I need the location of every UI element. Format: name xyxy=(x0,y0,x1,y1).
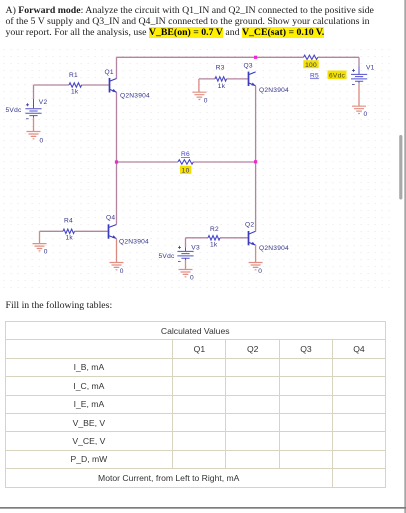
svg-text:5Vdc: 5Vdc xyxy=(6,107,22,114)
svg-text:0: 0 xyxy=(40,138,44,145)
svg-text:0: 0 xyxy=(44,249,48,256)
value 6Vdc of V1 (highlighted) xyxy=(328,71,347,80)
resistor R3 xyxy=(215,77,227,81)
resistor R6 xyxy=(178,160,193,164)
middle motor wire xyxy=(117,161,256,163)
svg-text:0: 0 xyxy=(190,275,194,282)
left rail wire xyxy=(116,92,118,224)
svg-text:Q4: Q4 xyxy=(106,214,115,221)
transistor Q4 xyxy=(109,224,117,238)
svg-text:Q2N3904: Q2N3904 xyxy=(120,92,150,99)
node junction right xyxy=(254,160,257,163)
svg-text:Q3: Q3 xyxy=(244,63,253,70)
resistor R4 xyxy=(63,229,75,233)
source V1 battery xyxy=(351,67,367,84)
wire R2 row / V3 xyxy=(186,238,248,248)
wire V1 to ground xyxy=(358,83,360,106)
value 10 of R6 (highlighted) xyxy=(180,166,191,174)
svg-text:Q1: Q1 xyxy=(105,69,114,76)
wire V2 to R1 xyxy=(34,85,109,99)
svg-text:1k: 1k xyxy=(218,83,226,90)
wire R4 row xyxy=(40,230,108,232)
svg-text:1k: 1k xyxy=(71,89,79,96)
svg-text:6Vdc: 6Vdc xyxy=(329,73,345,80)
wire V1 top xyxy=(358,57,360,66)
resistor R2 xyxy=(208,236,220,240)
ground of Q2 emitter xyxy=(255,245,257,262)
svg-text:5Vdc: 5Vdc xyxy=(159,253,175,260)
svg-text:0: 0 xyxy=(258,268,262,275)
source V2 battery xyxy=(25,99,41,118)
resistor R1 xyxy=(69,83,82,87)
ground of R3 xyxy=(198,79,200,92)
wire V2 to ground xyxy=(33,118,35,132)
node junction top xyxy=(254,56,257,59)
svg-text:R1: R1 xyxy=(69,72,78,79)
svg-text:100: 100 xyxy=(305,62,317,69)
svg-text:V1: V1 xyxy=(366,64,375,71)
ground V2 xyxy=(27,132,41,139)
transistor Q1 xyxy=(110,78,117,93)
value 100 of R5 (highlighted) xyxy=(303,60,318,68)
svg-text:R2: R2 xyxy=(210,226,219,233)
ground of Q4 emitter xyxy=(116,239,118,263)
svg-text:1k: 1k xyxy=(66,235,74,242)
svg-text:R6: R6 xyxy=(181,151,190,158)
svg-text:Q2N3904: Q2N3904 xyxy=(259,87,289,94)
wire V3 to ground xyxy=(185,260,187,269)
svg-text:0: 0 xyxy=(364,111,368,118)
svg-text:R3: R3 xyxy=(216,65,225,72)
wire R3 row xyxy=(199,78,248,80)
svg-text:0: 0 xyxy=(204,97,208,104)
svg-text:Q2N3904: Q2N3904 xyxy=(259,245,289,252)
ground V1 xyxy=(352,106,366,113)
resistor R5 xyxy=(304,55,318,59)
transistor Q3 xyxy=(249,72,256,86)
source V3 battery xyxy=(177,247,193,260)
right rail wire xyxy=(255,86,257,231)
top rail wire xyxy=(117,57,360,78)
svg-text:0: 0 xyxy=(120,268,124,275)
svg-text:Q2: Q2 xyxy=(245,222,254,229)
ground V3 xyxy=(179,270,193,277)
svg-text:R4: R4 xyxy=(64,217,73,224)
svg-text:Q2N3904: Q2N3904 xyxy=(119,239,149,246)
ground of R4 xyxy=(39,231,41,243)
svg-text:V3: V3 xyxy=(191,244,200,251)
svg-text:V2: V2 xyxy=(39,99,48,106)
svg-text:R5: R5 xyxy=(310,72,319,79)
node junction left xyxy=(115,160,118,163)
transistor Q2 xyxy=(249,231,256,245)
svg-text:1k: 1k xyxy=(210,242,218,249)
svg-text:10: 10 xyxy=(182,168,190,175)
